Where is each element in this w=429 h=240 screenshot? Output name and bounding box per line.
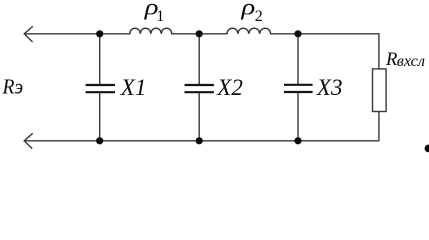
svg-text:X1: X1 [120, 75, 147, 100]
wire capacitor X1 top lead [99, 34, 101, 84]
wire right vertical lower (resistor to bottom rail) [378, 112, 380, 141]
wire capacitor X2 top lead [198, 34, 200, 84]
svg-text:1: 1 [156, 8, 164, 25]
capacitor X3 plates [284, 85, 313, 92]
capacitor X1 plates [86, 85, 115, 92]
inductor rho2 [227, 28, 271, 34]
wire capacitor X2 bottom lead [198, 93, 200, 141]
svg-text:X2: X2 [216, 75, 243, 100]
label Rvhsl (R_вх.сл) input resistance [385, 50, 425, 70]
stray period dot bottom-right [425, 145, 429, 153]
svg-text:2: 2 [255, 8, 263, 25]
wire capacitor X3 bottom lead [297, 93, 299, 141]
label rho1 value of inductor 1 [144, 0, 165, 25]
junction node top 3 [294, 30, 301, 37]
wire capacitor X1 bottom lead [99, 93, 101, 141]
svg-text:ρ: ρ [240, 0, 255, 20]
terminal arrow top-left [24, 27, 32, 42]
wire right vertical upper (to resistor) [378, 34, 380, 69]
junction node top 1 [96, 30, 103, 37]
wire top rail middle segment [172, 33, 227, 35]
junction node top 2 [196, 30, 203, 37]
wire bottom rail [24, 140, 379, 142]
svg-text:Rэ: Rэ [2, 76, 24, 99]
junction node bottom 2 [196, 137, 203, 144]
svg-text:R: R [385, 50, 397, 70]
svg-text:вхсл: вхсл [397, 51, 425, 70]
terminal arrow bottom-left [24, 134, 32, 149]
wire top rail right segment [271, 33, 379, 35]
wire top rail left segment [24, 33, 130, 35]
junction node bottom 1 [96, 137, 103, 144]
inductor rho1 [130, 28, 172, 34]
resistor Rvhsl body [373, 69, 387, 112]
wire capacitor X3 top lead [297, 34, 299, 84]
svg-text:X3: X3 [316, 75, 343, 100]
capacitor X2 plates [185, 85, 214, 92]
label rho2 value of inductor 2 [240, 0, 262, 25]
junction node bottom 3 [294, 137, 301, 144]
